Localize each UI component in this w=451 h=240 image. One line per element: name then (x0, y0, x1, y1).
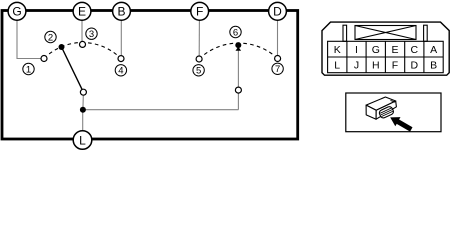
pole-2 end circle (235, 87, 241, 93)
node 6 dot (235, 42, 241, 48)
svg-text:F: F (392, 60, 398, 72)
terminal B (113, 2, 131, 20)
dashed travel arc 1-4 (44, 43, 121, 59)
pin grid (328, 41, 444, 72)
switch body outline box (2, 11, 298, 140)
svg-text:1: 1 (26, 64, 31, 75)
svg-text:K: K (334, 44, 341, 56)
junction dot (80, 107, 86, 113)
svg-text:G: G (372, 44, 380, 56)
svg-text:I: I (355, 44, 358, 56)
svg-text:6: 6 (233, 27, 238, 38)
wire junction horizontal run (83, 109, 239, 111)
contact circle node 7 (275, 56, 281, 62)
wire E to contact 3 (81, 20, 83, 42)
label 4 (115, 65, 126, 77)
svg-text:E: E (391, 44, 398, 56)
pin letters row 2 (334, 60, 437, 72)
connector view icon frame (346, 93, 441, 132)
wire up to pole-2 circle (237, 94, 239, 110)
node 2 dot (59, 44, 65, 50)
connector 3d body left face (366, 105, 376, 119)
connector housing (322, 22, 449, 75)
svg-text:J: J (354, 60, 359, 72)
terminal D (269, 2, 287, 20)
svg-text:C: C (411, 44, 419, 56)
wire L to junction (82, 110, 84, 131)
label 1 (23, 63, 34, 75)
terminal L (73, 131, 92, 150)
connector latch crossed box (355, 26, 416, 40)
connector 3d body right face (376, 101, 396, 119)
wire G to contact 1 (17, 20, 41, 59)
svg-text:7: 7 (275, 64, 280, 75)
wire pole-2 circle to arrow (237, 50, 239, 87)
svg-text:5: 5 (196, 66, 201, 77)
svg-text:A: A (430, 44, 437, 56)
svg-text:L: L (334, 60, 340, 72)
svg-text:B: B (117, 5, 125, 19)
svg-text:G: G (12, 5, 21, 19)
connector 3d ribbed terminal block (378, 106, 394, 119)
terminal F (191, 2, 209, 20)
connector 3d body top face (366, 97, 396, 110)
svg-text:E: E (78, 5, 86, 19)
contact circle node 4 (118, 56, 124, 62)
dashed travel arc 5-7 (199, 43, 278, 59)
pin letters row 1 (334, 44, 437, 56)
contact circle node 1 (41, 56, 47, 62)
switch lever (62, 47, 83, 89)
contact circle node 3 (80, 41, 86, 47)
terminal G (8, 2, 26, 20)
svg-text:4: 4 (118, 66, 123, 77)
contact circle node 5 (196, 56, 202, 62)
direction arrow (390, 117, 412, 132)
wire B to contact 4 (120, 20, 122, 56)
connector 3d rim line (391, 100, 396, 102)
svg-text:F: F (196, 5, 203, 19)
wire junction to lever pivot circle (82, 96, 84, 110)
connector key tab right (424, 25, 428, 41)
connector key tab left (343, 25, 347, 41)
wire F to contact 5 (198, 20, 200, 56)
svg-text:D: D (411, 60, 419, 72)
svg-text:D: D (273, 5, 282, 19)
label 5 (193, 65, 204, 77)
label 6 (230, 26, 241, 38)
wire D to contact 7 (277, 20, 279, 56)
svg-text:3: 3 (89, 29, 94, 40)
svg-text:H: H (372, 60, 380, 72)
arrowhead at node 6 (236, 47, 242, 51)
label 3 (86, 28, 97, 40)
lever end circle (80, 89, 86, 95)
svg-text:2: 2 (48, 32, 53, 43)
terminal E (73, 2, 91, 20)
svg-text:L: L (79, 133, 86, 147)
svg-text:B: B (430, 60, 437, 72)
label 2 (45, 31, 56, 43)
label 7 (272, 63, 283, 75)
